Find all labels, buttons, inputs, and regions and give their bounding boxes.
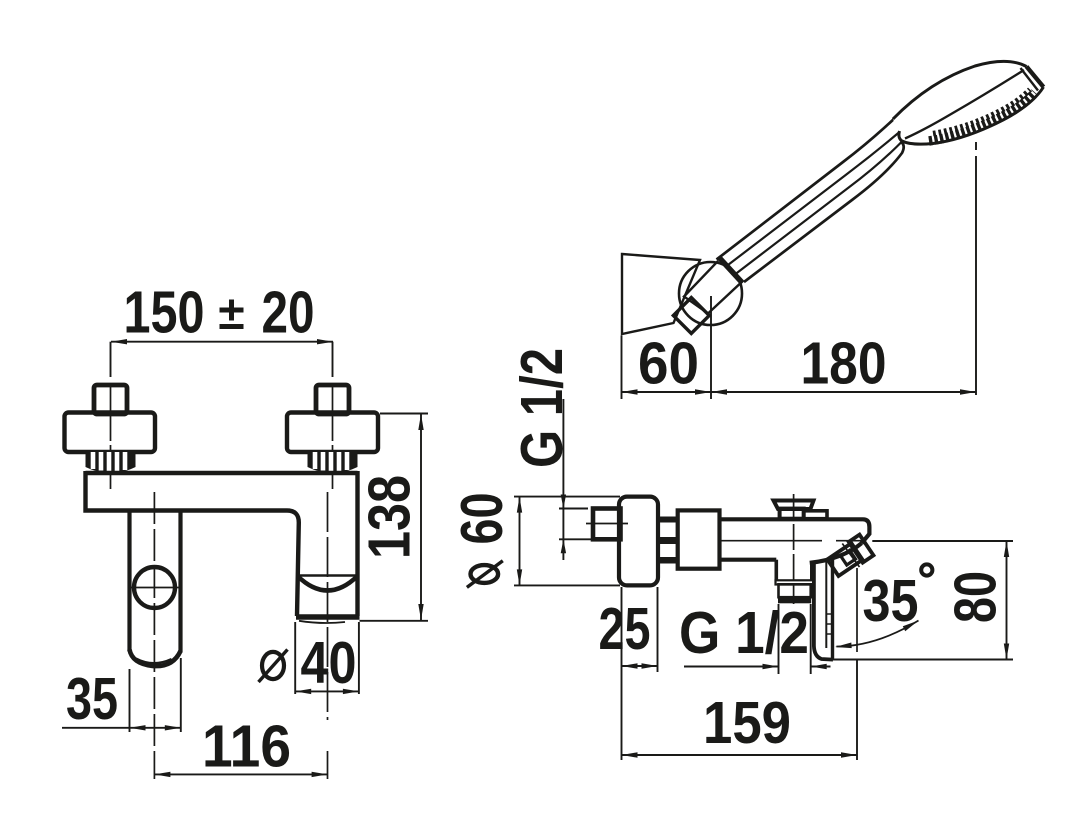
G 1/2 outlet extension right (810, 604, 812, 674)
dimension ø40 extension left (294, 622, 296, 694)
dimension 159 extension right (856, 660, 858, 761)
arrow ø40 right (343, 689, 359, 694)
holder circle (679, 262, 742, 325)
handle circle crosshair (131, 587, 179, 589)
arrow 150 left (111, 339, 127, 344)
arrow 116 right (312, 772, 328, 777)
dimension 35 extension right (180, 658, 182, 732)
arrow 138 up (418, 414, 423, 430)
svg-text:60: 60 (449, 493, 515, 545)
shower head fill (893, 61, 1044, 144)
dimension 60-180 line (622, 391, 977, 393)
arrow G12 outlet right-pointing (763, 664, 779, 669)
shower head end cap (1027, 67, 1044, 88)
arrow 60 left (622, 389, 638, 394)
dimension 159 line (622, 754, 858, 756)
spout straight line (298, 574, 359, 576)
square cap side (593, 509, 621, 540)
arrow ø60 down (517, 569, 522, 585)
dimension 116 line (154, 773, 327, 775)
left union flange (65, 413, 156, 453)
left cylinder right edge (178, 511, 182, 653)
dimension 60/180 shared extension (710, 296, 712, 399)
mixer bar top edge (86, 471, 358, 475)
handle tail in holder (684, 259, 741, 313)
shower head top outline (893, 61, 1027, 119)
svg-text:80: 80 (943, 571, 1009, 623)
35deg vertical line (856, 568, 858, 652)
svg-text:35: 35 (863, 568, 919, 634)
svg-text:159: 159 (703, 690, 791, 756)
svg-text:40: 40 (301, 630, 357, 696)
dimension 60 extension left (621, 336, 623, 400)
right union flange (287, 413, 378, 453)
handle top edge (717, 117, 897, 260)
arrow G12 outlet left-pointing (811, 664, 827, 669)
spray nozzles bristles row2 (933, 90, 1030, 134)
arrow 35 left (130, 725, 146, 730)
spray nozzles bristles (929, 93, 1035, 142)
arrow G12cap up (561, 539, 566, 553)
dimension 150±20 line (111, 341, 333, 343)
arrow 150 right (317, 339, 333, 344)
arrow G12cap down (561, 495, 566, 509)
union axis centerline (586, 523, 628, 525)
spout blade right inner edge (825, 560, 827, 649)
outlet left edge (774, 560, 778, 581)
outlet nut (779, 584, 811, 597)
dimension 180 extension (975, 142, 977, 395)
mixer bar left edge and bottom step (86, 471, 299, 616)
spout under arc (299, 621, 345, 623)
handle bottom edge (744, 142, 904, 283)
svg-text:20: 20 (262, 280, 315, 346)
extension line left union (110, 342, 112, 377)
diverter inner square (841, 550, 856, 565)
G 1/2 outlet dim line right tail (811, 666, 831, 668)
nut crosshair tick (786, 584, 801, 586)
spout blade left edge (814, 563, 833, 660)
svg-text:35: 35 (66, 666, 118, 732)
left cylinder bottom cap (130, 650, 181, 667)
handle inner line 2 (735, 140, 903, 274)
spout arc (298, 576, 358, 591)
arrow 35deg arc left (835, 643, 852, 649)
collar band thick (720, 258, 743, 283)
dimension 80 top extension (872, 540, 1013, 542)
svg-text:G 1/2: G 1/2 (509, 348, 575, 468)
dimension ø40 line (295, 690, 359, 692)
arrow 35 right (165, 725, 181, 730)
shower head end cap inner (1021, 68, 1039, 91)
arrow 35deg arc right (903, 621, 919, 632)
dimension 138 bottom extension (360, 620, 429, 622)
left cylinder inner arc (136, 659, 172, 664)
cartridge rect B (804, 511, 827, 519)
outlet right edge (810, 563, 814, 582)
svg-text:60: 60 (638, 331, 699, 397)
svg-text:116: 116 (202, 714, 291, 780)
left cylinder left edge (127, 511, 131, 652)
svg-text:150: 150 (124, 280, 205, 346)
G 1/2 outlet extension left (778, 604, 780, 674)
35deg axis line slanted (842, 544, 859, 568)
G 1/2 outlet dim line left tail (684, 666, 779, 668)
ø60 top extension (514, 496, 620, 498)
svg-text:138: 138 (357, 475, 423, 559)
label ø60 rotated symbol (467, 561, 503, 588)
right union cap (316, 385, 349, 414)
spout blade tick marks (827, 614, 832, 634)
body top edge (720, 519, 870, 543)
handle inner line 1 (726, 129, 903, 266)
35deg arc (836, 621, 918, 647)
right union thread (308, 452, 358, 473)
arrow 116 left (154, 772, 170, 777)
cartridge rect A (780, 509, 804, 519)
dimension 138 line (420, 414, 422, 620)
cartridge centerline (793, 494, 795, 604)
wall bracket cone (622, 254, 700, 334)
handle circle (134, 567, 175, 608)
body centerline (718, 540, 866, 542)
diverter collar (849, 535, 874, 563)
dimension 25 line (622, 665, 658, 667)
G 1/2 cap bottom tick (559, 538, 593, 540)
dimension 80 line (1006, 541, 1008, 660)
arrow 80 up (1004, 541, 1009, 557)
thread side (658, 517, 680, 564)
escutcheon (619, 497, 658, 586)
centerline left union (110, 385, 112, 489)
arrow 138 down (418, 604, 423, 620)
centerline spout (327, 492, 329, 779)
svg-text:180: 180 (801, 331, 887, 397)
extension line right union (332, 342, 334, 377)
body underside curve (810, 543, 862, 563)
diverter main knob (827, 543, 862, 576)
svg-text:G 1/2: G 1/2 (679, 600, 809, 666)
G 1/2 cap top tick (559, 508, 588, 510)
outlet lip (776, 580, 814, 584)
arrow ø60 up (517, 497, 522, 513)
dimension 35 line (62, 727, 181, 729)
dimension 35 extension left (129, 669, 131, 732)
handle body white fill (717, 117, 906, 282)
dimension 25 extension left (621, 587, 623, 760)
arrow 159 right (841, 752, 857, 757)
centerline right union (332, 385, 334, 489)
dimension 80 bottom extension (833, 659, 1013, 661)
dimension ø40 extension right (358, 622, 360, 694)
shower head inner line (905, 70, 1024, 139)
arrow 180 right (960, 389, 976, 394)
ø60 bottom extension (514, 584, 620, 586)
arrow 180 left (711, 389, 727, 394)
spout blade right outer edge (831, 558, 834, 659)
arrow 159 left (622, 752, 638, 757)
dimension 138 top extension (380, 413, 428, 415)
degree symbol (921, 564, 932, 575)
arrow 60 right (695, 389, 711, 394)
left union thread (86, 452, 136, 473)
shower head face edge (899, 87, 1044, 144)
arrow ø40 left (295, 689, 311, 694)
ø60 dimension line (519, 497, 521, 586)
arrow 25 left (622, 663, 638, 668)
svg-text:25: 25 (599, 596, 651, 662)
outlet nut dark band (778, 597, 811, 603)
ø40 diameter symbol (259, 650, 288, 683)
left union cap (94, 385, 127, 414)
arrow 25 right (642, 663, 658, 668)
centerline left cylinder (153, 492, 155, 779)
mixer bar right edge (355, 471, 359, 616)
inlet square fitting (673, 298, 709, 334)
G 1/2 leader line (562, 399, 564, 560)
spout bottom band (296, 614, 360, 619)
diverter knob group (826, 535, 874, 578)
arrow 80 down (1004, 644, 1009, 660)
cartridge trapezoid knob (774, 501, 814, 510)
dimension 25 extension right (657, 587, 659, 672)
body bottom edge (720, 558, 777, 562)
sleeve (678, 510, 720, 568)
